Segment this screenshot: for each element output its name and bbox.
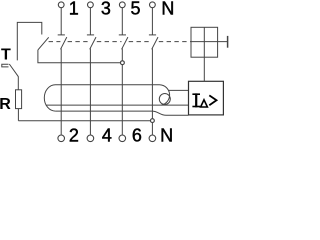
pole3 switch blade [122,37,128,49]
pole4 switch blade [152,37,158,49]
pole1 fixed contact bar [58,34,65,36]
actuator T-bar [227,36,229,48]
relay label delta [201,100,208,107]
CT secondary wire top [169,89,189,91]
wire button to resistor [17,76,19,89]
svg-text:4: 4 [102,126,112,143]
svg-text:1: 1 [69,0,79,18]
wire pole3 top [121,8,123,35]
wire pole1 bottom [60,49,62,135]
terminal 1 circle [58,2,64,8]
test button blade [9,64,18,77]
pole2 switch blade [90,37,96,49]
mechanism cross vertical [203,27,205,57]
svg-text:5: 5 [130,0,140,18]
terminal 6 circle [119,135,126,142]
auxiliary test contact blade [38,37,49,50]
svg-text:N: N [160,126,173,143]
wire relay to mechanism [203,57,205,81]
label 1 [69,0,79,18]
mechanism cross horizontal + output line [191,41,227,43]
wire from aux contact down [38,50,121,63]
trip relay box [189,81,224,115]
CT inner bottom edge to relay [46,104,188,106]
terminal N bottom circle [149,135,156,142]
wire pole2 top [89,8,91,35]
junction circle on N conductor [151,119,155,123]
CT outer bottom edge to relay box corner [55,111,188,115]
wire pole2 bottom [89,49,91,135]
terminal 2 circle [58,135,65,142]
test circuit top wire (up-right-down) [17,22,42,60]
terminal 4 circle [87,135,94,142]
current transformer core outline (left cap, top edge, right cap) [44,85,169,111]
junction circle on pole3 [121,61,125,65]
terminal 3 circle [88,2,94,8]
terminal N top circle [150,2,156,8]
wire resistor down [17,109,19,121]
wire pole4 top [151,8,153,35]
pole1 switch blade [61,37,67,49]
wire pole3 bottom [121,49,123,135]
svg-text:T: T [1,46,11,63]
pole3 fixed contact bar [119,34,126,36]
test circuit bottom wire to N [18,120,150,122]
svg-text:3: 3 [101,0,111,18]
mechanism square box [191,27,218,57]
relay label greater-than [209,95,216,105]
wire pole4 bottom [151,49,153,135]
mechanical linkage dashed line [49,41,191,43]
svg-text:R: R [0,96,11,113]
svg-text:N: N [161,0,174,18]
relay label I [192,93,200,107]
pole2 fixed contact bar [87,34,94,36]
terminal 5 circle [119,2,125,8]
pole4 fixed contact bar [149,34,156,36]
svg-text:2: 2 [69,126,79,143]
CT secondary winding circle [159,94,170,105]
test button actuator [2,64,9,67]
resistor R box [16,90,22,109]
svg-text:6: 6 [132,126,142,143]
wire pole1 top [60,8,62,35]
